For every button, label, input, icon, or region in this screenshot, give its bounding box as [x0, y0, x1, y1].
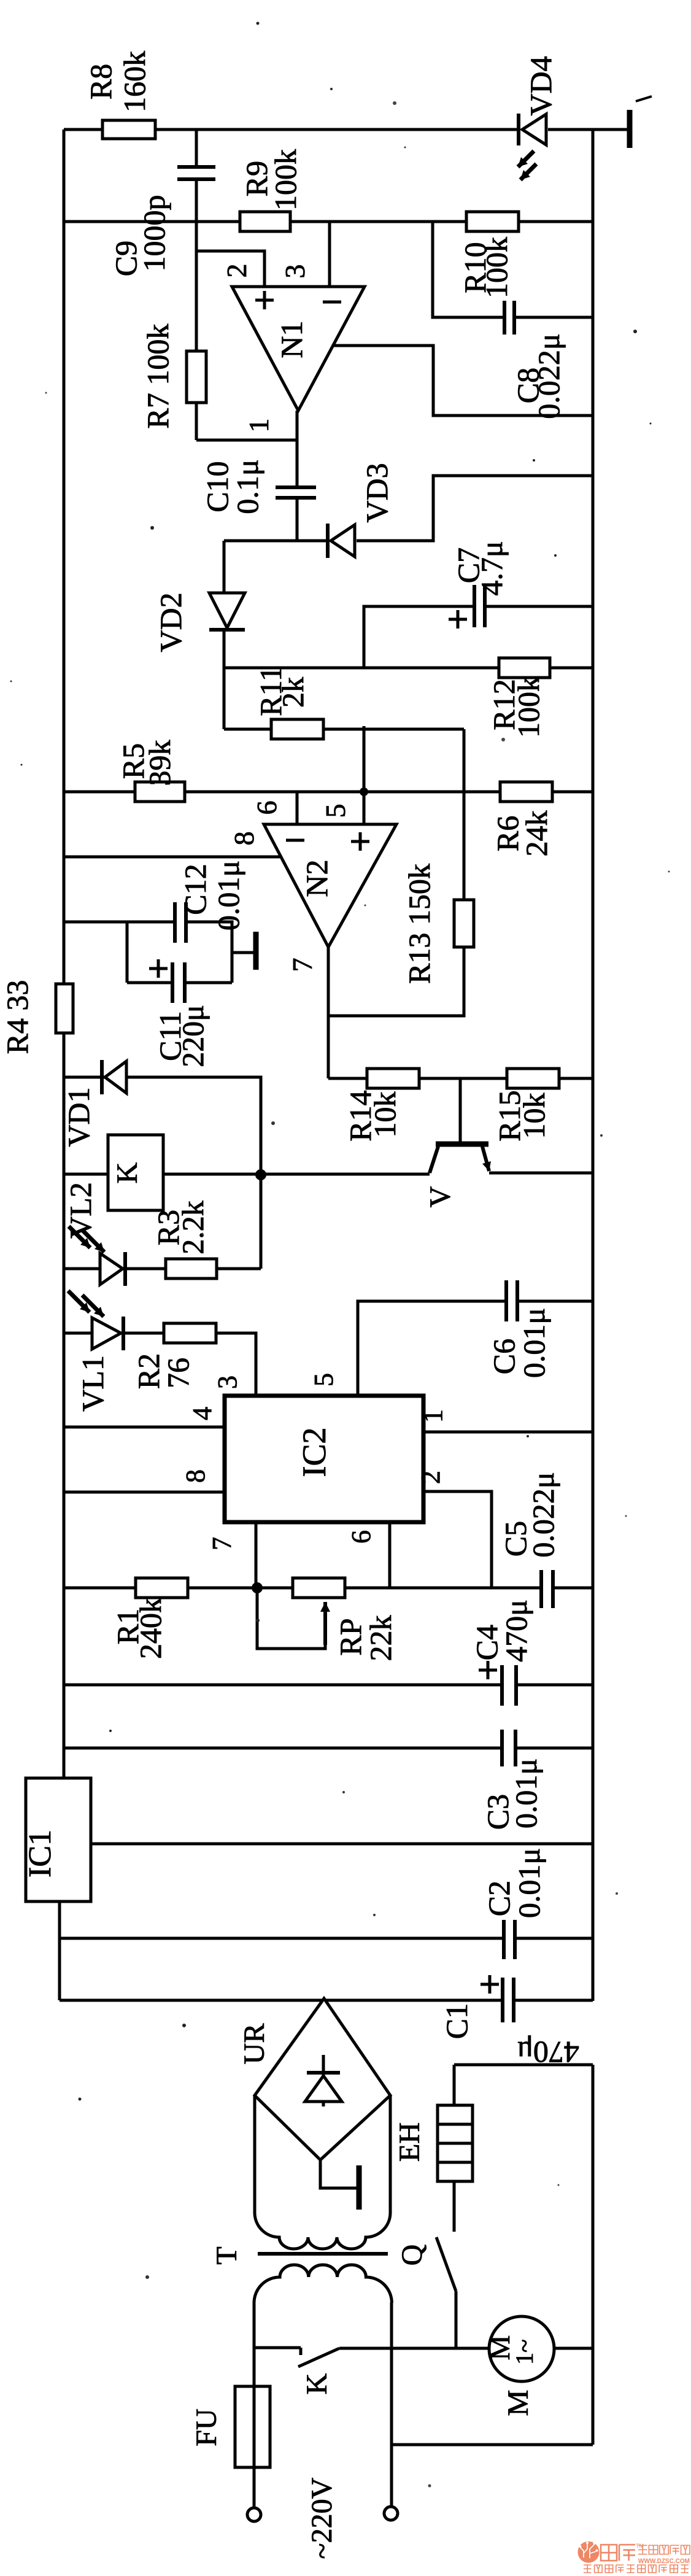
label C12 0.01u	[178, 861, 245, 930]
wire IC2 pin5 to C6 line	[358, 1301, 593, 1396]
svg-text:22k: 22k	[363, 1615, 398, 1661]
wire C3 line	[64, 1747, 593, 1750]
label C4 470u	[469, 1599, 533, 1662]
resistor R13	[454, 900, 474, 947]
wire IC2 pin6	[388, 1522, 392, 1588]
svg-text:1000p: 1000p	[137, 195, 171, 272]
svg-text:Q: Q	[396, 2245, 428, 2266]
label R8 160k	[83, 51, 152, 112]
wire pin5 N2	[363, 726, 366, 824]
wire pin2 branch N1	[196, 251, 264, 287]
svg-text:1: 1	[243, 419, 274, 433]
label R9 100k	[239, 149, 303, 211]
LED VL2	[101, 1255, 124, 1283]
svg-text:3: 3	[279, 265, 311, 279]
op-amp N1 - sign	[323, 301, 341, 304]
svg-text:EH: EH	[393, 2122, 426, 2162]
svg-text:4: 4	[187, 1407, 217, 1420]
svg-text:C10: C10	[200, 461, 234, 512]
svg-text:R7 100k: R7 100k	[141, 324, 175, 429]
label C11 220u	[153, 1005, 210, 1067]
motor M	[489, 2316, 554, 2381]
terminal 220V live	[247, 2508, 261, 2521]
svg-text:T: T	[210, 2246, 243, 2264]
svg-text:10k: 10k	[368, 1092, 402, 1138]
wire N2 apex pin7 vertical	[327, 947, 330, 1078]
diode VD4 arrows	[518, 151, 534, 167]
capacitor C4 polarity +	[479, 1661, 497, 1679]
label C2 0.01u	[482, 1848, 546, 1918]
wire N1 apex to C10 to VD3 line	[296, 411, 299, 541]
label R11 2k	[253, 666, 310, 716]
label R6 24k	[490, 811, 554, 857]
capacitor C3	[503, 1728, 514, 1768]
ground top-right (output rail)	[627, 110, 633, 148]
resistor R9	[240, 212, 290, 231]
svg-text:WWW.DZSC.COM: WWW.DZSC.COM	[638, 2558, 690, 2565]
svg-text:0.022μ: 0.022μ	[531, 333, 566, 419]
svg-text:7: 7	[207, 1537, 237, 1550]
wire right rail	[592, 130, 595, 2001]
capacitor C5	[542, 1568, 552, 1610]
bridge rectifier UR	[255, 1998, 390, 2160]
wire primary left lead / fuse branch	[253, 2302, 256, 2507]
svg-text:2k: 2k	[276, 677, 310, 708]
bridge rectifier UR inner diode	[322, 2055, 325, 2106]
wire R5-R6 line	[64, 791, 593, 794]
label R12 100k	[487, 676, 546, 738]
node dot K/V collector	[255, 1169, 266, 1180]
diode VD1	[104, 1062, 128, 1093]
LED VL2 arrows	[69, 1226, 90, 1248]
wire EH top line	[454, 2064, 593, 2067]
svg-text:8: 8	[228, 832, 260, 846]
wire top rail (N1 output net, portrait-horizontal)	[64, 128, 627, 131]
svg-text:C6: C6	[487, 1339, 521, 1374]
transistor V	[436, 1142, 488, 1147]
wire IC2 pin8 line	[64, 1491, 225, 1494]
svg-text:160k: 160k	[117, 51, 152, 112]
IC IC1	[26, 1778, 91, 1901]
svg-text:VD3: VD3	[360, 463, 394, 522]
wire R1-RP-C5 line	[64, 1587, 593, 1590]
svg-text:VD1: VD1	[61, 1087, 96, 1147]
label C7 4.7u	[451, 541, 509, 595]
svg-text:2: 2	[221, 264, 252, 278]
resistor R6	[500, 782, 552, 802]
diode VD2	[210, 594, 237, 628]
watermark title glyphs	[601, 2545, 617, 2561]
wire K contact line	[254, 2348, 301, 2355]
transformer T secondary winding	[255, 2213, 390, 2249]
capacitor C7	[476, 583, 484, 629]
wire RP wiper return	[257, 1590, 325, 1649]
op-amp N2 - sign	[286, 839, 304, 842]
resistor R14	[367, 1069, 419, 1088]
wire IC2 pin7	[255, 1522, 258, 1588]
terminal 220V neutral	[384, 2507, 398, 2520]
op-amp N2 + sign	[351, 832, 369, 851]
op-amp N1	[232, 287, 365, 411]
wire motor line	[339, 2347, 593, 2350]
svg-text:0.022μ: 0.022μ	[526, 1472, 560, 1557]
heater element EH	[438, 2105, 473, 2181]
wire C7 branch	[364, 606, 593, 667]
wire R13 vertical	[328, 729, 464, 1016]
svg-text:C12: C12	[178, 864, 212, 915]
wire C11/C12 ground stub	[232, 951, 253, 954]
resistor R11	[271, 719, 323, 739]
label C8 0.022u	[511, 333, 566, 419]
wire V emitter to rail	[489, 1172, 593, 1175]
resistor R4	[56, 984, 73, 1033]
wire left rail lower	[63, 1010, 66, 1778]
wire VD2 branch vertical	[223, 541, 226, 729]
svg-text:24k: 24k	[519, 811, 554, 857]
wire right vertical (motor section)	[592, 2065, 595, 2445]
label R3 2.2k	[151, 1201, 210, 1255]
potentiometer RP	[293, 1578, 345, 1598]
svg-text:220μ: 220μ	[176, 1005, 210, 1067]
wire pin6 N2	[296, 792, 299, 824]
svg-text:4.7μ: 4.7μ	[474, 541, 509, 595]
resistor R2	[164, 1323, 216, 1343]
wire C8 branch	[433, 222, 593, 317]
resistor R12	[499, 658, 550, 678]
svg-text:76: 76	[161, 1358, 195, 1388]
svg-text:39k: 39k	[142, 740, 177, 786]
ground UR- bar	[357, 2165, 362, 2210]
svg-text:7: 7	[287, 958, 318, 972]
capacitor C6	[508, 1278, 516, 1323]
wire pin8 N2 line	[64, 856, 280, 859]
label RP 22k	[333, 1615, 398, 1661]
label C6 0.01u	[487, 1308, 551, 1378]
watermark bottom slogan glyphs	[584, 2565, 592, 2573]
capacitor C2	[505, 1918, 514, 1961]
svg-text:R13 150k: R13 150k	[402, 864, 436, 984]
wire IC2 pin1 line	[423, 1431, 593, 1434]
label VL2	[63, 1182, 98, 1239]
svg-text:~220V: ~220V	[306, 2477, 338, 2559]
capacitor C1 polarity +	[481, 1975, 499, 1994]
svg-text:6: 6	[346, 1530, 376, 1544]
label VD4	[523, 56, 558, 115]
label VD1	[61, 1087, 96, 1147]
svg-text:0.01μ: 0.01μ	[509, 1758, 543, 1828]
svg-text:10k: 10k	[517, 1093, 551, 1139]
resistor R1	[136, 1578, 188, 1598]
svg-text:100k: 100k	[511, 676, 546, 738]
label R1 240k	[110, 1598, 168, 1659]
svg-text:V: V	[424, 1186, 457, 1207]
label C9 1000p	[109, 195, 171, 277]
svg-text:C2: C2	[482, 1881, 516, 1916]
wire VL2-R3 line	[64, 1267, 261, 1271]
wire UR right vertex to secondary	[389, 2095, 392, 2213]
resistor R3	[166, 1259, 217, 1278]
label R14 10k	[343, 1090, 402, 1141]
ground C11/C12	[253, 932, 259, 970]
wire EH leads	[453, 2065, 456, 2232]
wire pin3 branch N1	[328, 222, 331, 287]
wire left rail below IC1	[58, 1901, 61, 2000]
svg-text:240k: 240k	[133, 1598, 168, 1659]
wire bottom line to right vertical	[392, 2443, 593, 2446]
svg-text:0.01μ: 0.01μ	[517, 1308, 551, 1378]
diode VD3	[328, 526, 357, 555]
svg-text:6: 6	[251, 801, 282, 815]
watermark dzsc logo	[578, 2542, 600, 2563]
wire V base	[459, 1078, 462, 1142]
capacitor C10	[274, 489, 318, 497]
label VL1	[75, 1355, 110, 1412]
svg-text:VD4: VD4	[523, 56, 558, 115]
capacitor C4	[503, 1663, 515, 1708]
svg-text:IC1: IC1	[23, 1830, 58, 1878]
wire R9-R10 line	[64, 220, 593, 223]
svg-text:VL1: VL1	[75, 1355, 110, 1412]
resistor R7	[187, 351, 206, 403]
wire R12 line	[224, 667, 593, 670]
capacitor C8	[506, 299, 513, 336]
wire VD1 line	[64, 1077, 261, 1269]
svg-text:5: 5	[309, 1373, 339, 1387]
svg-text:8: 8	[180, 1469, 210, 1483]
wire UR left vertex to secondary	[253, 2095, 257, 2213]
label R2 76	[131, 1353, 195, 1389]
label C5 0.022u	[498, 1472, 560, 1557]
svg-text:N2: N2	[299, 859, 334, 897]
wire C1 line (UR+ rail)	[60, 1999, 593, 2002]
svg-text:100k: 100k	[479, 237, 514, 298]
label R7 100k	[141, 324, 175, 429]
wire C9/R7 branch	[196, 130, 297, 440]
wire Q to motor line	[455, 2291, 458, 2348]
label VD2	[153, 592, 188, 652]
svg-text:FU: FU	[190, 2408, 223, 2446]
label R5 39k	[116, 740, 177, 786]
wire switch K blade	[298, 2348, 339, 2367]
transformer T primary winding	[254, 2265, 392, 2303]
wire relay K line to V collector	[64, 1173, 430, 1176]
svg-text:100k: 100k	[268, 149, 303, 211]
wire left rail upper	[63, 130, 66, 1010]
svg-text:VL2: VL2	[63, 1182, 98, 1239]
capacitor C11	[174, 961, 183, 1005]
svg-text:0.01μ: 0.01μ	[211, 861, 245, 930]
capacitor C12	[176, 900, 185, 945]
svg-text:0.1μ: 0.1μ	[230, 459, 264, 514]
wire C2 line	[60, 1937, 593, 1940]
label R13 150k	[402, 864, 436, 984]
potentiometer RP wiper arrow	[323, 1602, 327, 1645]
op-amp N1 + sign	[255, 291, 274, 309]
capacitor C7 polarity +	[449, 610, 467, 629]
svg-text:UR: UR	[238, 2024, 271, 2065]
capacitor C11 polarity +	[149, 959, 168, 978]
label R10 100k	[458, 237, 514, 298]
relay coil K	[108, 1135, 163, 1210]
fuse FU	[235, 2386, 270, 2467]
wire IC2 pin2 branch	[423, 1491, 492, 1588]
svg-text:2: 2	[415, 1471, 446, 1484]
wire VD2/VD3 line	[224, 476, 593, 541]
wire IC1 common pin line	[91, 1843, 593, 1846]
wire UR- to ground bar	[320, 2160, 358, 2188]
resistor R10	[466, 212, 519, 231]
svg-text:2.2k: 2.2k	[176, 1201, 210, 1255]
svg-text:5: 5	[320, 804, 351, 818]
resistor R5	[135, 782, 185, 802]
wire VL1-R2 line to IC2 pin3	[64, 1333, 256, 1396]
wire primary right lead	[390, 2302, 393, 2507]
svg-text:C1: C1	[439, 2003, 474, 2039]
op-amp N2	[264, 824, 396, 947]
wire R14-R15 line	[328, 1077, 593, 1080]
resistor R8	[102, 120, 155, 139]
svg-text:1: 1	[418, 1409, 448, 1423]
switch Q blade	[436, 2237, 456, 2291]
label C3 0.01u	[481, 1758, 543, 1830]
diode VD4 (LED on output rail)	[519, 114, 548, 145]
svg-text:470μ: 470μ	[499, 1599, 533, 1662]
LED VL1	[93, 1319, 116, 1348]
capacitor C1	[504, 1976, 512, 2024]
label C10 0.1u	[200, 459, 264, 514]
label C1	[439, 2003, 474, 2039]
svg-text:IC2: IC2	[296, 1428, 333, 1477]
LED VL1 arrows	[68, 1291, 90, 1312]
svg-text:470μ: 470μ	[517, 2035, 579, 2070]
wire C12 line	[64, 922, 232, 983]
svg-text:R8: R8	[83, 64, 118, 99]
wire N1 output tap	[333, 346, 593, 416]
svg-text:R4 33: R4 33	[0, 980, 34, 1054]
svg-text:RP: RP	[333, 1618, 368, 1655]
wire IC2 pin4 line	[64, 1426, 225, 1429]
node dot pin7/RP	[252, 1582, 263, 1593]
wire R11 line	[224, 728, 464, 731]
svg-text:0.01μ: 0.01μ	[512, 1848, 546, 1918]
label R4 33	[0, 980, 34, 1054]
label R15 10k	[492, 1090, 551, 1141]
svg-text:K: K	[111, 1162, 144, 1183]
resistor R15	[507, 1069, 559, 1088]
svg-text:VD2: VD2	[153, 592, 188, 652]
capacitor C9	[176, 168, 217, 178]
node dot pin5 crossing	[360, 787, 368, 796]
svg-text:K: K	[301, 2373, 333, 2394]
label VD3	[360, 463, 394, 522]
wire C4 line	[64, 1684, 593, 1687]
transformer T core	[258, 2252, 388, 2256]
wire C11 line	[127, 922, 232, 983]
IC IC2	[225, 1396, 423, 1522]
svg-text:N1: N1	[274, 320, 309, 358]
svg-text:M: M	[502, 2390, 535, 2416]
svg-text:3: 3	[212, 1375, 242, 1389]
svg-text:1~: 1~	[511, 2339, 538, 2365]
